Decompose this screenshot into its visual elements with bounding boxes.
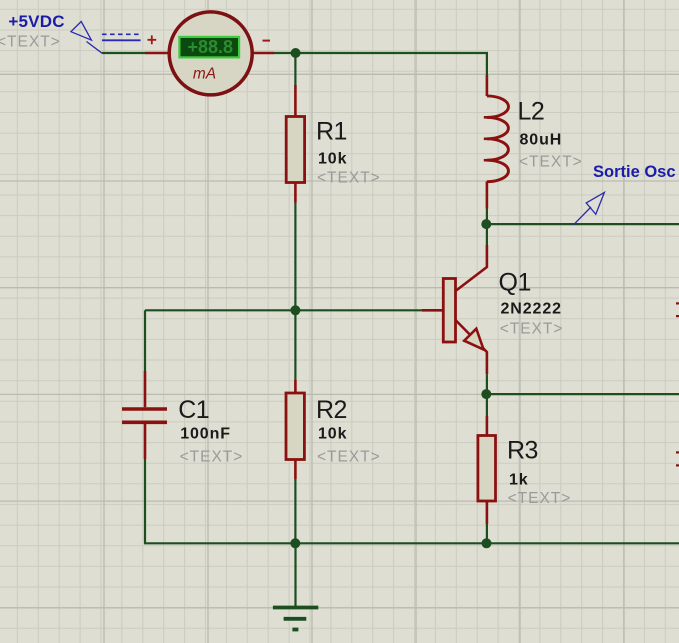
svg-text:Q1: Q1	[499, 269, 531, 297]
svg-text:<TEXT>: <TEXT>	[180, 449, 244, 466]
svg-text:R3: R3	[507, 437, 538, 465]
svg-text:80uH: 80uH	[520, 131, 563, 148]
svg-text:<TEXT>: <TEXT>	[0, 34, 61, 51]
svg-text:R1: R1	[316, 118, 347, 146]
svg-text:<TEXT>: <TEXT>	[508, 490, 572, 507]
svg-text:10k: 10k	[318, 150, 347, 167]
svg-text:mA: mA	[193, 66, 216, 83]
svg-text:+5VDC: +5VDC	[8, 12, 64, 31]
svg-text:2N2222: 2N2222	[501, 301, 562, 318]
svg-text:R2: R2	[316, 396, 347, 424]
svg-text:<TEXT>: <TEXT>	[519, 153, 583, 170]
svg-text:C1: C1	[178, 396, 209, 424]
svg-text:Sortie Osc: Sortie Osc	[593, 163, 676, 181]
svg-text:1k: 1k	[509, 472, 529, 489]
svg-text:<TEXT>: <TEXT>	[317, 170, 381, 187]
svg-text:100nF: 100nF	[180, 425, 231, 442]
svg-text:L2: L2	[518, 98, 545, 126]
svg-text:+88.8: +88.8	[188, 37, 234, 57]
svg-text:<TEXT>: <TEXT>	[500, 321, 564, 338]
svg-text:<TEXT>: <TEXT>	[317, 449, 381, 466]
svg-text:10k: 10k	[318, 425, 347, 442]
